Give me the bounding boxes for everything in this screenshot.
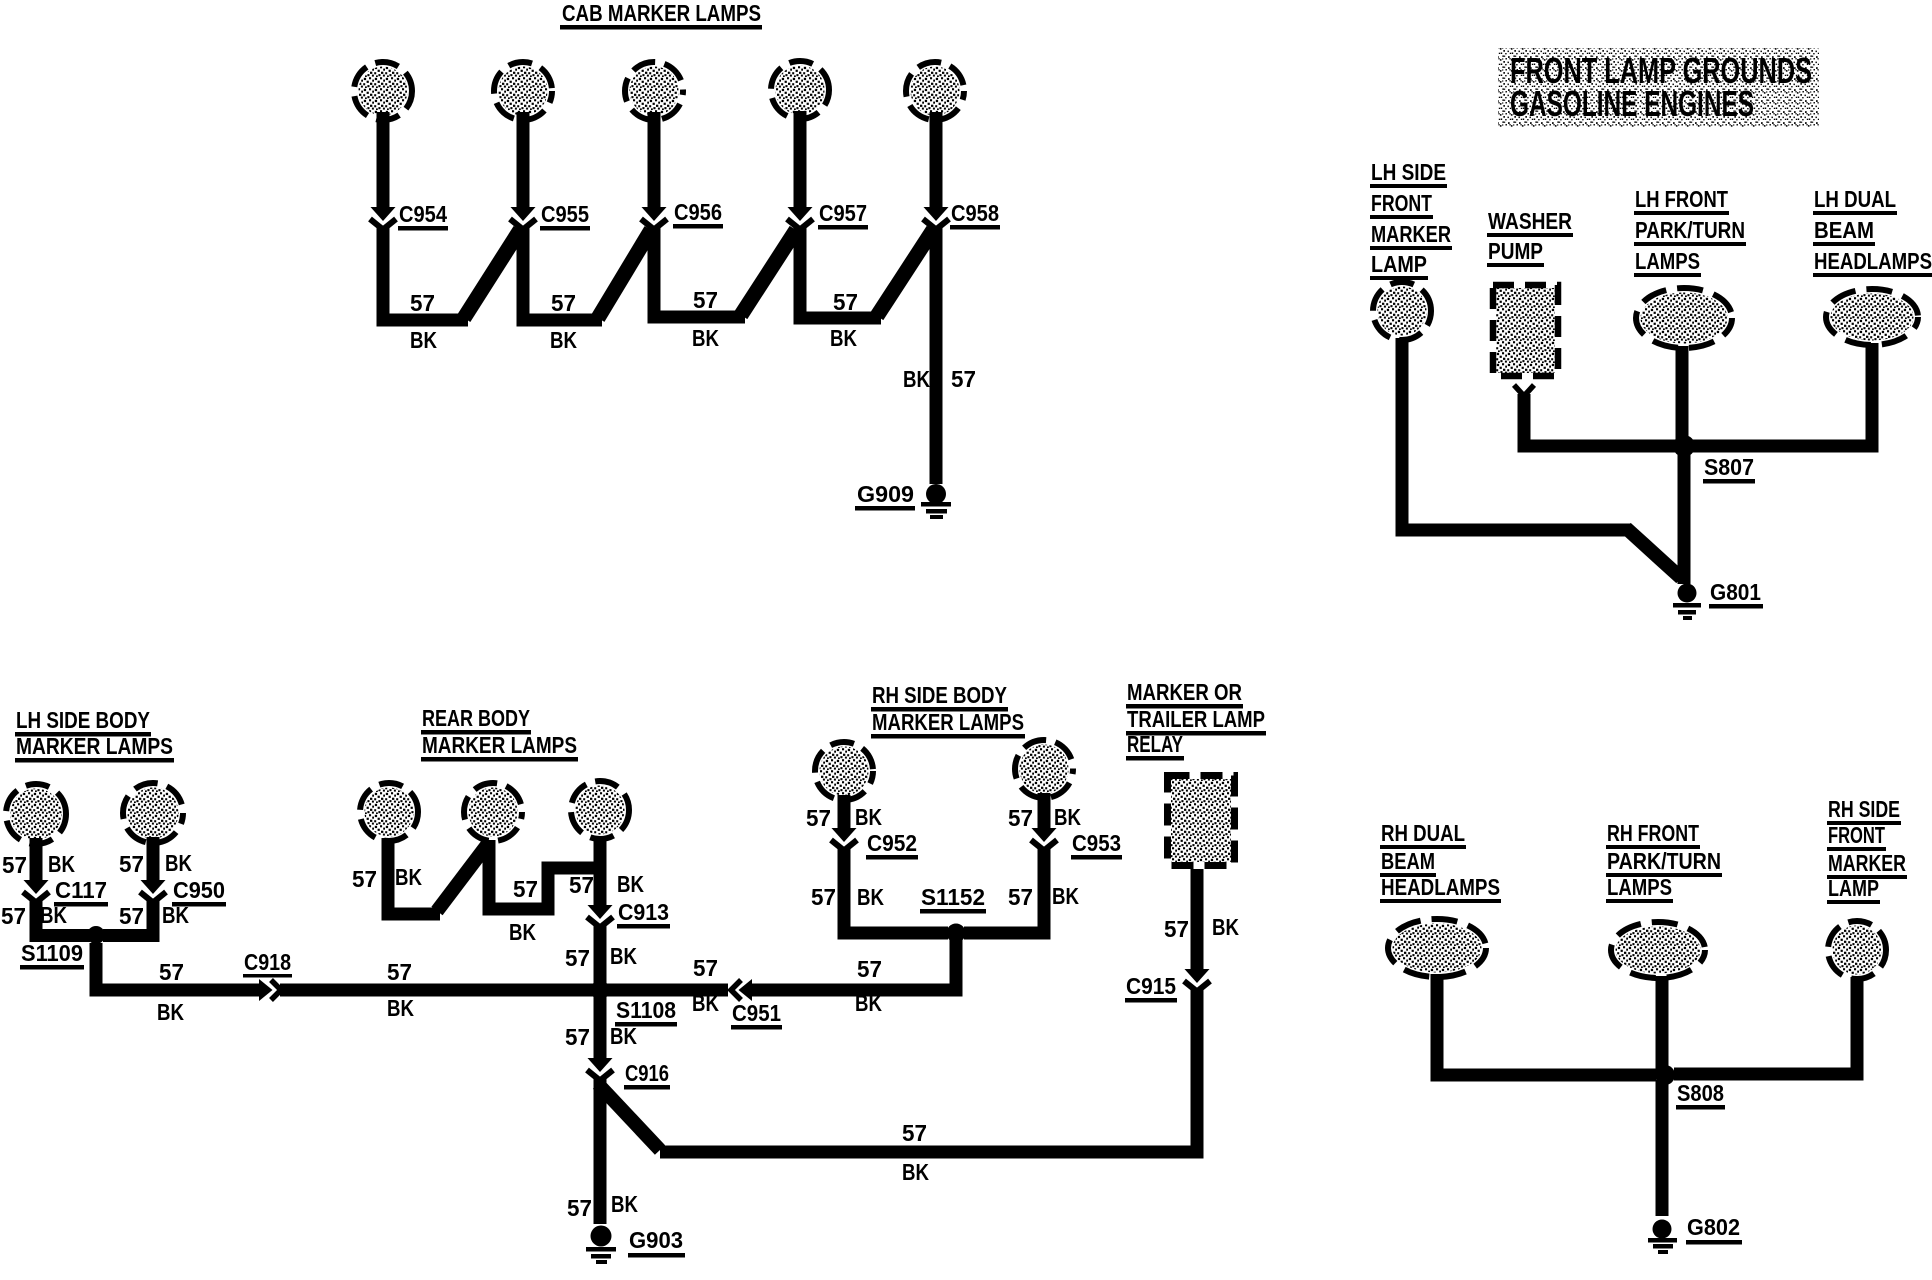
wire diagonal 1 [464, 230, 520, 318]
svg-text:57: 57 [119, 851, 144, 877]
svg-text:BK: BK [550, 327, 577, 353]
svg-text:G801: G801 [1710, 579, 1761, 605]
label C958 [950, 200, 1000, 230]
wire lamp1 stub [377, 112, 390, 208]
lamp LH dual beam headlamps [1826, 289, 1918, 345]
svg-text:PARK/TURN: PARK/TURN [1607, 848, 1721, 874]
wire C916 diagonal branch [598, 1084, 660, 1150]
svg-text:MARKER LAMPS: MARKER LAMPS [422, 732, 577, 758]
svg-text:57: 57 [1008, 805, 1033, 831]
lamp RH front park/turn [1611, 922, 1705, 978]
title FRONT LAMP GROUNDS GASOLINE ENGINES [1498, 48, 1819, 127]
wire diagonal to G801 [1626, 528, 1681, 578]
wire lamp2 stub [147, 837, 160, 881]
svg-text:BK: BK [410, 327, 437, 353]
svg-text:LAMPS: LAMPS [1635, 248, 1700, 274]
wire diagonal 2 [598, 230, 651, 318]
title MARKER OR TRAILER LAMP RELAY [1126, 679, 1266, 761]
title RH SIDE BODY MARKER LAMPS [871, 682, 1025, 739]
svg-text:S1109: S1109 [21, 940, 83, 966]
svg-text:BK: BK [1212, 914, 1239, 940]
svg-text:57: 57 [1, 903, 26, 929]
lamp rear body 1 [360, 783, 418, 841]
svg-text:BK: BK [1054, 804, 1081, 830]
label C916 [624, 1060, 670, 1090]
wire C952 to S1152 [844, 848, 948, 933]
lamp cab marker 3 [625, 62, 683, 120]
svg-text:C957: C957 [819, 200, 867, 226]
wire RH marker to S808 [1674, 977, 1857, 1074]
wire C913 to S1108 [594, 925, 607, 984]
svg-text:MARKER LAMPS: MARKER LAMPS [16, 733, 173, 759]
connector washer pump half [1514, 385, 1534, 396]
title CAB MARKER LAMPS [560, 0, 762, 30]
wire diagonal 3 [741, 230, 796, 315]
label C913 [617, 899, 670, 929]
svg-text:57: 57 [569, 872, 594, 898]
connector C950 [140, 880, 166, 903]
relay box [1168, 776, 1235, 866]
svg-text:57: 57 [1164, 916, 1189, 942]
svg-text:C952: C952 [867, 830, 917, 856]
svg-text:RH SIDE BODY: RH SIDE BODY [872, 682, 1007, 708]
svg-text:BK: BK [48, 851, 75, 877]
svg-text:C958: C958 [951, 200, 999, 226]
wire segment 1 [383, 227, 468, 320]
wire LH marker lamp down and right [1402, 338, 1630, 530]
wire rear lamp1 [388, 838, 440, 914]
svg-text:MARKER OR: MARKER OR [1127, 679, 1242, 705]
svg-text:C951: C951 [732, 1000, 781, 1026]
svg-text:C916: C916 [625, 1060, 669, 1086]
wire C918 to S1108 [280, 984, 594, 997]
wire rear lamp3 stub [594, 836, 607, 906]
svg-text:RH DUAL: RH DUAL [1381, 820, 1465, 846]
svg-text:57: 57 [857, 956, 882, 982]
label C915 [1125, 973, 1177, 1003]
lamp RH dual beam headlamps [1388, 919, 1486, 977]
svg-text:57: 57 [2, 852, 27, 878]
svg-text:57: 57 [567, 1195, 592, 1221]
svg-text:BK: BK [617, 871, 644, 897]
label C957 [818, 200, 868, 230]
wire rear lamp2 jog [489, 840, 598, 909]
svg-text:G903: G903 [629, 1227, 683, 1253]
connector C117 [23, 880, 49, 903]
lamp LH side front marker [1373, 282, 1431, 340]
label C956 [673, 199, 723, 229]
lamp RH side front marker [1828, 921, 1886, 979]
svg-text:57: 57 [387, 959, 412, 985]
svg-text:BK: BK [165, 850, 192, 876]
svg-text:57: 57 [806, 805, 831, 831]
connector C957 [787, 207, 813, 230]
svg-text:LH SIDE: LH SIDE [1371, 159, 1446, 185]
svg-text:RH FRONT: RH FRONT [1607, 820, 1699, 846]
connector C915 [1184, 969, 1210, 992]
svg-text:BEAM: BEAM [1814, 217, 1874, 243]
svg-text:LH DUAL: LH DUAL [1814, 186, 1896, 212]
label C950 [172, 877, 226, 907]
svg-text:RELAY: RELAY [1127, 731, 1183, 757]
label RH FRONT PARK/TURN LAMPS [1606, 820, 1722, 903]
svg-text:C915: C915 [1126, 973, 1176, 999]
svg-text:BK: BK [855, 990, 882, 1016]
svg-text:PARK/TURN: PARK/TURN [1635, 217, 1745, 243]
svg-text:TRAILER LAMP: TRAILER LAMP [1127, 706, 1265, 732]
label WASHER PUMP [1487, 208, 1573, 267]
lamp RH body marker 2 [1015, 740, 1073, 798]
label C954 [398, 201, 448, 231]
lamp LH front park/turn [1636, 288, 1732, 348]
svg-text:MARKER: MARKER [1371, 221, 1451, 247]
splice S807 [1673, 435, 1695, 457]
svg-text:LAMP: LAMP [1371, 251, 1427, 277]
svg-text:57: 57 [159, 959, 184, 985]
wire RH park/turn to S808 [1656, 976, 1669, 1075]
wire S807 to G801 [1678, 450, 1691, 584]
svg-text:BK: BK [509, 919, 536, 945]
wire washer pump to S807 [1524, 394, 1680, 446]
label LH FRONT PARK/TURN LAMPS [1634, 186, 1746, 277]
label LH SIDE FRONT MARKER LAMP [1370, 159, 1452, 280]
svg-text:S1152: S1152 [921, 884, 985, 910]
title REAR BODY MARKER LAMPS [421, 705, 578, 762]
wire lamp1 stub [30, 838, 43, 881]
wire RH headlamps to S808 [1437, 974, 1656, 1075]
lamp cab marker 4 [771, 61, 829, 119]
svg-text:BK: BK [830, 325, 857, 351]
lamp RH body marker 1 [815, 742, 873, 800]
svg-text:C954: C954 [399, 201, 447, 227]
svg-text:C950: C950 [173, 877, 225, 903]
wire diagonal 4 [877, 230, 933, 316]
svg-text:BEAM: BEAM [1381, 848, 1435, 874]
svg-text:FRONT: FRONT [1371, 190, 1432, 216]
splice S1109 [87, 926, 105, 944]
svg-text:57: 57 [551, 290, 576, 316]
label S1152 [920, 884, 986, 914]
svg-text:57: 57 [811, 884, 836, 910]
label S1108 [615, 997, 677, 1027]
svg-text:BK: BK [162, 902, 189, 928]
wire C953 to S1152 [964, 848, 1044, 933]
svg-text:BK: BK [387, 995, 414, 1021]
wire S1109 down and right to C918 [96, 943, 260, 990]
label C117 [54, 877, 108, 907]
svg-text:BK: BK [610, 1023, 637, 1049]
label G801 [1709, 579, 1763, 609]
label S1109 [20, 940, 84, 970]
connector C918 [259, 979, 281, 1001]
wire lamp4 stub [794, 111, 807, 208]
label RH DUAL BEAM HEADLAMPS [1380, 820, 1501, 903]
ground G909 [921, 484, 951, 519]
svg-text:57: 57 [951, 366, 976, 392]
svg-text:BK: BK [395, 864, 422, 890]
connector C916 [587, 1058, 613, 1081]
svg-text:S1108: S1108 [616, 997, 676, 1023]
wire C915 down and left [660, 989, 1197, 1152]
connector C955 [510, 207, 536, 230]
label S807 [1703, 454, 1755, 484]
lamp LH body marker 1 [6, 784, 66, 844]
label C918 [243, 949, 292, 978]
lamp rear body 3 [571, 781, 629, 839]
svg-text:LAMPS: LAMPS [1607, 874, 1672, 900]
label G903 [628, 1227, 685, 1258]
svg-text:BK: BK [1052, 883, 1079, 909]
splice S1152 [947, 924, 966, 943]
wire relay to C915 [1191, 869, 1204, 970]
connector C953 [1031, 828, 1057, 851]
svg-text:MARKER LAMPS: MARKER LAMPS [872, 709, 1024, 735]
title LH SIDE BODY MARKER LAMPS [15, 707, 174, 763]
wire S1108 to C916 [594, 996, 607, 1059]
svg-text:BK: BK [857, 884, 884, 910]
wire C950 to S1109 [103, 900, 153, 936]
svg-text:C955: C955 [541, 201, 589, 227]
wire segment 4 [800, 227, 881, 318]
wire RH lamp2 stub [1038, 793, 1051, 829]
connector C958 [923, 207, 949, 230]
wire lamp5 stub [930, 112, 943, 208]
label G909 [855, 481, 915, 511]
svg-text:BK: BK [40, 902, 67, 928]
label C955 [540, 201, 590, 231]
svg-text:HEADLAMPS: HEADLAMPS [1381, 874, 1500, 900]
svg-text:57: 57 [352, 866, 377, 892]
wire segment 5 to ground [930, 227, 943, 484]
svg-text:BK: BK [692, 325, 719, 351]
svg-text:RH SIDE: RH SIDE [1828, 796, 1900, 822]
svg-text:S808: S808 [1677, 1080, 1724, 1106]
svg-text:LH FRONT: LH FRONT [1635, 186, 1728, 212]
wire lamp2 stub [517, 112, 530, 208]
lamp LH body marker 2 [123, 783, 183, 843]
svg-text:57: 57 [119, 903, 144, 929]
wire S808 to G802 [1656, 1080, 1669, 1216]
connector C913 [587, 905, 613, 928]
svg-text:C117: C117 [55, 877, 107, 903]
svg-text:C913: C913 [618, 899, 669, 925]
svg-text:CAB MARKER LAMPS: CAB MARKER LAMPS [562, 0, 761, 26]
svg-text:BK: BK [611, 1191, 638, 1217]
label RH SIDE FRONT MARKER LAMP [1827, 796, 1907, 904]
svg-text:BK: BK [610, 943, 637, 969]
svg-text:S807: S807 [1704, 454, 1754, 480]
svg-text:HEADLAMPS: HEADLAMPS [1814, 248, 1932, 274]
svg-text:C918: C918 [244, 949, 291, 975]
ground G801 [1673, 584, 1701, 621]
wire C916 to G903 [594, 1078, 607, 1224]
svg-text:57: 57 [565, 945, 590, 971]
wire rear diagonal [437, 841, 490, 911]
svg-text:MARKER: MARKER [1828, 850, 1906, 876]
label C951 [731, 1000, 782, 1030]
svg-text:GASOLINE ENGINES: GASOLINE ENGINES [1510, 83, 1754, 124]
label G802 [1686, 1214, 1742, 1245]
svg-text:57: 57 [1008, 884, 1033, 910]
label C952 [866, 830, 918, 860]
svg-text:57: 57 [693, 287, 718, 313]
connector C952 [831, 828, 857, 851]
wire S1108 to C951 [606, 984, 728, 997]
label S808 [1676, 1080, 1725, 1110]
washer pump box [1493, 285, 1558, 376]
wire segment 3 [654, 227, 745, 317]
lamp cab marker 2 [494, 62, 552, 120]
label C953 [1071, 830, 1122, 860]
lamp rear body 2 [464, 783, 522, 841]
svg-text:WASHER: WASHER [1488, 208, 1572, 234]
svg-text:57: 57 [693, 955, 718, 981]
wire RH lamp1 stub [838, 795, 851, 829]
svg-text:57: 57 [565, 1024, 590, 1050]
svg-text:C956: C956 [674, 199, 722, 225]
wire S1152 down to main run [751, 940, 956, 990]
svg-text:LH SIDE BODY: LH SIDE BODY [16, 707, 150, 733]
svg-text:C953: C953 [1072, 830, 1121, 856]
svg-text:REAR BODY: REAR BODY [422, 705, 530, 731]
svg-text:57: 57 [513, 876, 538, 902]
ground G802 [1648, 1220, 1677, 1255]
splice S808 [1655, 1065, 1675, 1085]
wire headlamps to S807 [1690, 343, 1872, 446]
svg-text:57: 57 [410, 290, 435, 316]
wire C117 to S1109 [36, 900, 90, 936]
svg-text:BK: BK [157, 999, 184, 1025]
svg-text:G802: G802 [1687, 1214, 1740, 1240]
svg-text:BK: BK [855, 804, 882, 830]
svg-text:G909: G909 [857, 481, 914, 507]
svg-text:FRONT: FRONT [1828, 822, 1885, 848]
svg-text:PUMP: PUMP [1488, 238, 1543, 264]
svg-text:57: 57 [833, 289, 858, 315]
lamp cab marker 1 [354, 62, 412, 120]
wire park/turn to S807 [1676, 346, 1689, 446]
label LH DUAL BEAM HEADLAMPS [1813, 186, 1932, 277]
wire lamp3 stub [648, 112, 661, 208]
lamp cab marker 5 [906, 62, 964, 120]
ground G903 [586, 1226, 616, 1265]
connector C956 [641, 207, 667, 230]
splice S1108 [591, 981, 610, 1000]
svg-text:BK: BK [903, 366, 930, 392]
svg-text:BK: BK [902, 1159, 929, 1185]
connector C951 [731, 979, 752, 1001]
svg-text:LAMP: LAMP [1828, 875, 1879, 901]
connector C954 [370, 207, 396, 230]
wire segment 2 [523, 227, 602, 320]
svg-text:57: 57 [902, 1120, 927, 1146]
